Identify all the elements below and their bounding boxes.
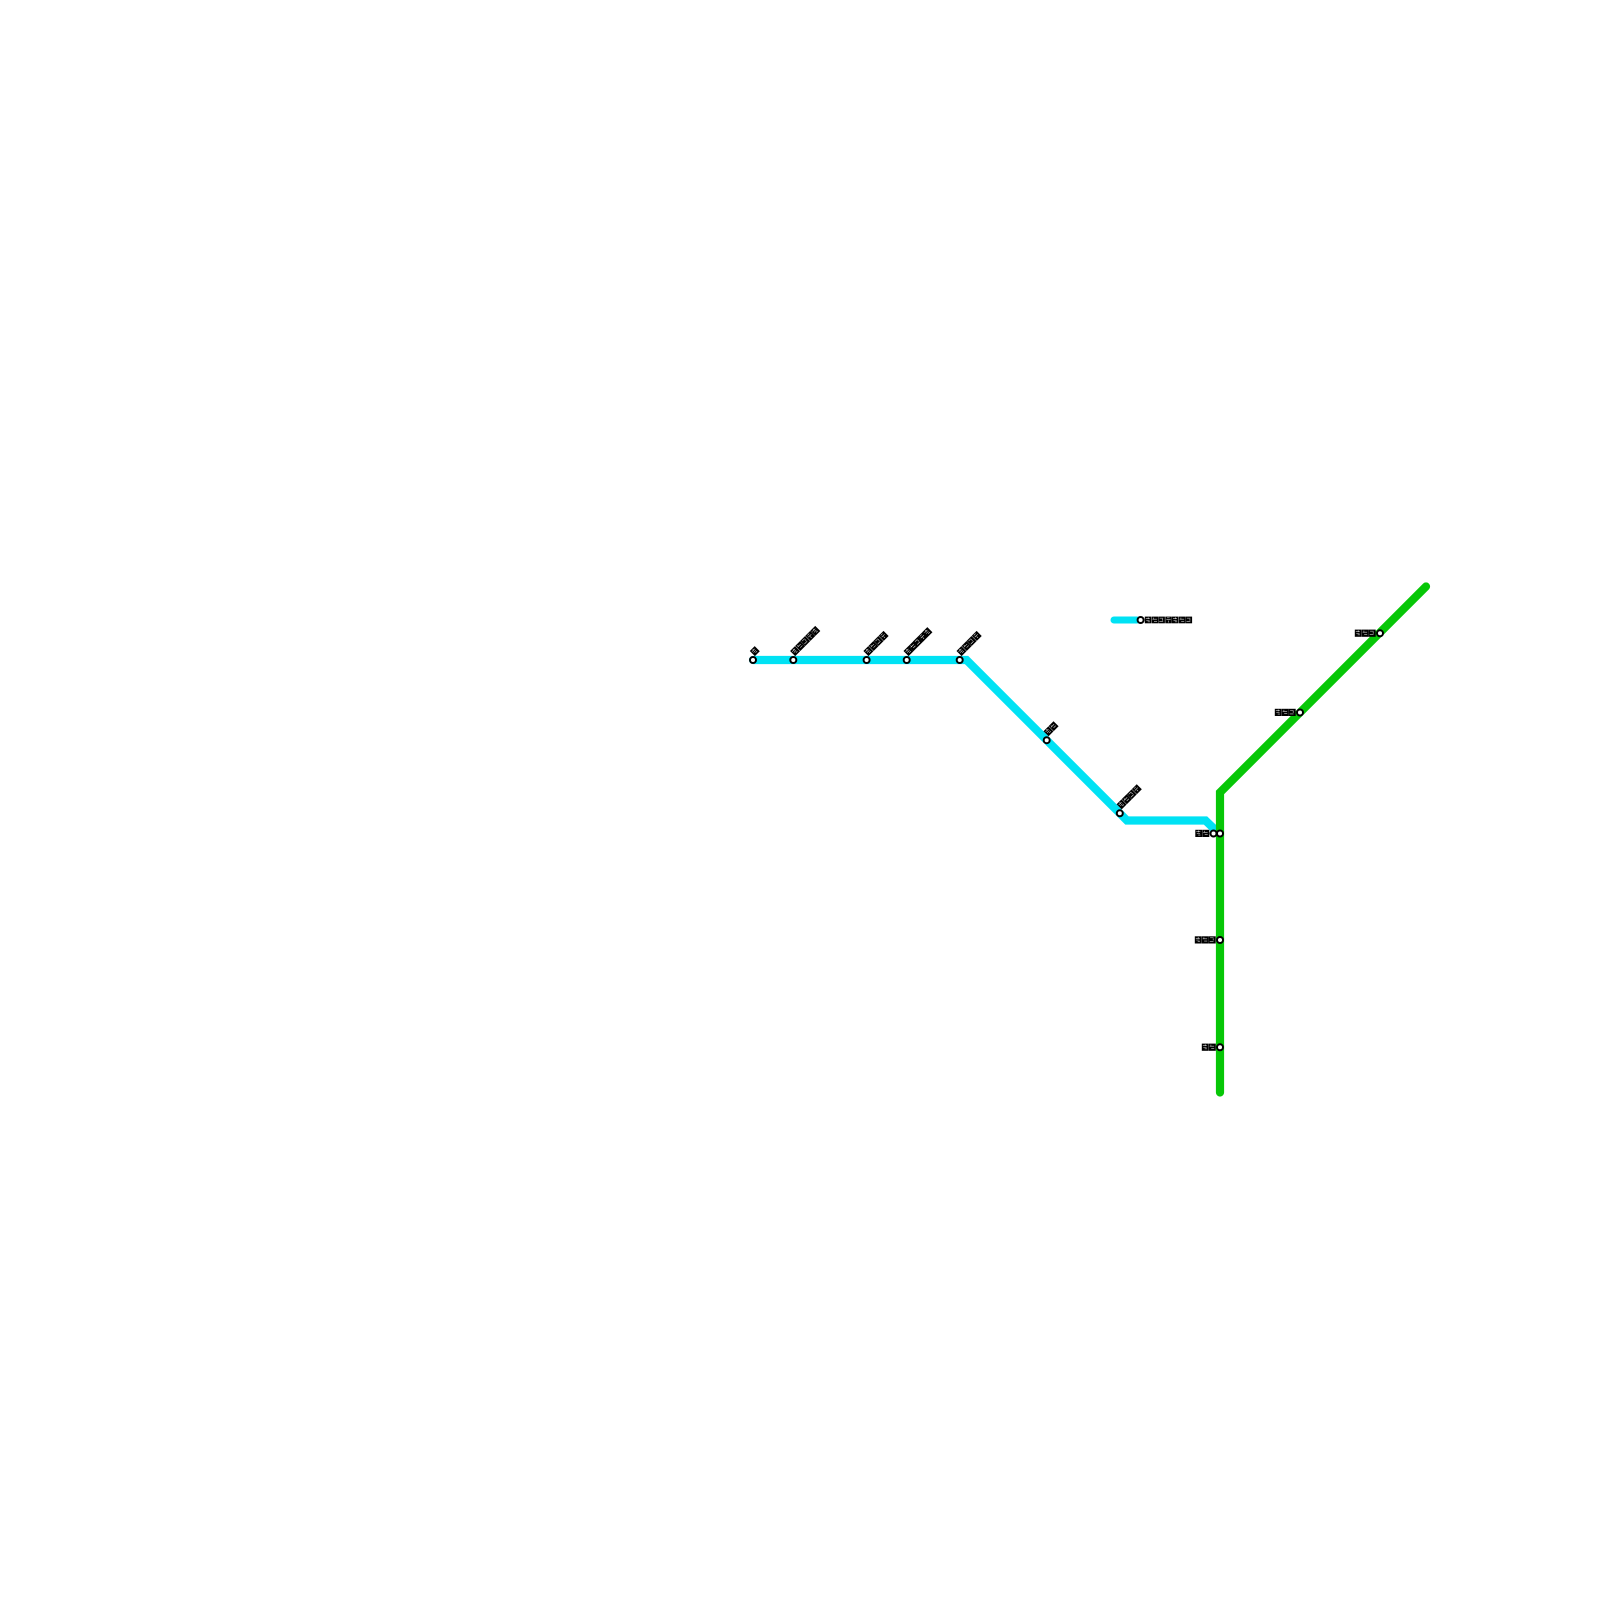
legend: cyan line sample swatch bbox=[1114, 617, 1137, 624]
station label: G2 (horizontal, left of marker) bbox=[1275, 709, 1296, 716]
station label: T-terminal (horizontal, left of marker) bbox=[1195, 830, 1209, 837]
station label: S2 (rotated 45deg) bbox=[790, 626, 820, 656]
station label: G1 (horizontal, left of marker) bbox=[1355, 630, 1376, 637]
station label: S6 (rotated 45deg) bbox=[1044, 721, 1059, 736]
station marker: G3-transfer bbox=[1217, 831, 1223, 837]
station label: G4 (horizontal, left of marker) bbox=[1195, 936, 1216, 943]
station marker: G5 bbox=[1217, 1044, 1223, 1050]
station label: S1 (rotated 45deg) bbox=[750, 646, 760, 656]
station marker: G1 bbox=[1377, 630, 1383, 636]
station marker: S3 bbox=[864, 657, 870, 663]
station label: S5 (rotated 45deg) bbox=[957, 631, 982, 656]
station marker: S7 bbox=[1117, 810, 1123, 816]
station label: S3 (rotated 45deg) bbox=[863, 631, 888, 656]
station marker: S1 bbox=[750, 657, 756, 663]
station marker: S6 bbox=[1044, 737, 1050, 743]
station marker: S4 bbox=[904, 657, 910, 663]
station marker: G4 bbox=[1217, 937, 1223, 943]
station label: S7 (rotated 45deg) bbox=[1117, 784, 1142, 809]
metro line 2 (green): north-east diagonal and south vertical trunk bbox=[1220, 587, 1426, 1093]
metro line 1 (cyan): west horizontal branch, diagonal, and spur to terminal bbox=[753, 660, 1219, 834]
station marker: G2 bbox=[1297, 710, 1303, 716]
station marker: T-terminal bbox=[1211, 831, 1217, 837]
station marker: S5 bbox=[957, 657, 963, 663]
legend: line name text bbox=[1145, 617, 1192, 624]
station label: G5 (horizontal, left of marker) bbox=[1202, 1044, 1216, 1051]
legend: station marker sample bbox=[1138, 617, 1144, 623]
station marker: S2 bbox=[790, 657, 796, 663]
station label: S4 (rotated 45deg) bbox=[904, 627, 933, 656]
